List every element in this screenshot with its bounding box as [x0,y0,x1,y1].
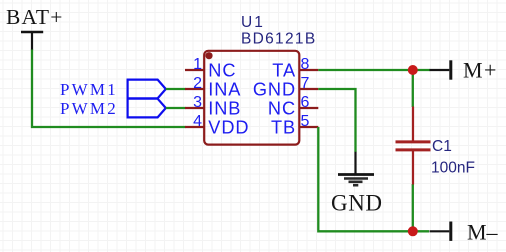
svg-text:4: 4 [193,113,202,130]
svg-text:3: 3 [193,94,202,111]
wire pin 5 down to M- net [318,127,429,231]
terminal M+ [430,58,498,83]
svg-text:TA: TA [272,61,296,81]
svg-text:2: 2 [193,75,202,92]
capacitor C1 [396,107,431,185]
IC U1 body [204,51,299,145]
svg-text:VDD: VDD [208,118,249,138]
svg-text:BD6121B: BD6121B [241,30,316,47]
svg-text:5: 5 [301,113,310,130]
svg-text:INB: INB [208,99,241,119]
wire C1 down to M- net [412,184,414,231]
svg-text:U1: U1 [241,14,265,31]
svg-text:1: 1 [193,56,202,73]
port flag PWM1 [128,80,166,99]
wire BAT+ to pin 4 VDD [32,50,186,128]
svg-text:BAT+: BAT+ [6,5,64,29]
svg-text:INA: INA [208,80,241,100]
svg-text:NC: NC [268,99,296,119]
svg-text:M+: M+ [463,58,498,83]
wire M+ net down to C1 [412,70,414,107]
svg-text:7: 7 [301,75,310,92]
pin 1 NC [185,56,236,81]
power port BAT+ [6,5,64,50]
svg-text:6: 6 [301,94,310,111]
pin 7 GND [253,75,318,100]
wire PWM1 to pin 2 [166,88,186,90]
pin 5 TB [271,113,318,138]
junction dot at M- net [408,226,418,236]
svg-text:GND: GND [253,80,296,100]
pin 6 NC [268,94,318,119]
svg-text:100nF: 100nF [431,160,475,177]
svg-text:NC: NC [208,61,236,81]
wire PWM2 to pin 3 [166,107,186,109]
svg-text:PWM2: PWM2 [60,99,118,118]
svg-text:8: 8 [301,56,310,73]
svg-text:PWM1: PWM1 [60,80,118,99]
pin 3 INB [185,94,241,119]
wire pin 8 to M+ [318,69,430,71]
pin 2 INA [185,75,241,100]
terminal M- [430,220,499,245]
svg-text:C1: C1 [432,138,452,155]
pin 8 TA [272,56,318,81]
pin 4 VDD [185,113,249,138]
svg-text:GND: GND [331,191,383,216]
svg-text:M–: M– [467,220,499,245]
wire pin 7 to ground [318,89,355,152]
ground [331,152,383,216]
port flag PWM2 [128,99,166,118]
junction dot at M+ net [408,65,418,75]
svg-text:TB: TB [271,118,296,138]
